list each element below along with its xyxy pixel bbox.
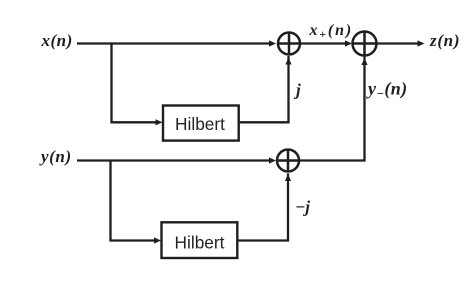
- wire adder1 to adder2: [300, 42, 348, 44]
- wire branch from x(n) down to hilbert1: [112, 44, 158, 123]
- svg-text:Hilbert: Hilbert: [175, 114, 225, 134]
- wire x(n) main horizontal: [77, 42, 272, 44]
- svg-text:y(n): y(n): [39, 147, 72, 166]
- arrowhead up into adder3 (-j path): [285, 174, 291, 181]
- arrowhead at z(n): [418, 40, 425, 46]
- svg-text:Hilbert: Hilbert: [175, 233, 225, 253]
- svg-text:x+(n): x+(n): [309, 22, 354, 41]
- hilbert block 2: [162, 222, 238, 258]
- arrowhead up into adder1 (j path): [285, 58, 291, 65]
- svg-text:−j: −j: [295, 198, 310, 217]
- arrowhead into adder2: [345, 40, 352, 46]
- wire adder2 to z(n): [376, 42, 419, 44]
- svg-text:y−(n): y−(n): [366, 79, 408, 101]
- wire adder3 output up to adder2: [299, 57, 365, 161]
- arrowhead into hilbert2: [154, 237, 161, 243]
- summing junction adder2: [353, 32, 377, 56]
- hilbert block 1: [163, 106, 239, 141]
- wire y(n) main horizontal: [77, 159, 271, 161]
- wire hilbert1 output up to adder1: [239, 56, 289, 122]
- summing junction adder3: [277, 150, 299, 172]
- summing junction adder1: [278, 33, 300, 55]
- svg-text:x(n): x(n): [41, 31, 73, 50]
- arrowhead into hilbert1: [156, 119, 163, 125]
- arrowhead into adder1: [269, 40, 276, 46]
- arrowhead up into adder2 (y- path): [361, 58, 367, 65]
- wire branch from y(n) down to hilbert2: [111, 161, 157, 241]
- arrowhead into adder3: [269, 157, 276, 163]
- wire hilbert2 output up to adder3: [237, 174, 288, 241]
- svg-text:j: j: [293, 81, 301, 100]
- svg-text:z(n): z(n): [429, 31, 460, 50]
